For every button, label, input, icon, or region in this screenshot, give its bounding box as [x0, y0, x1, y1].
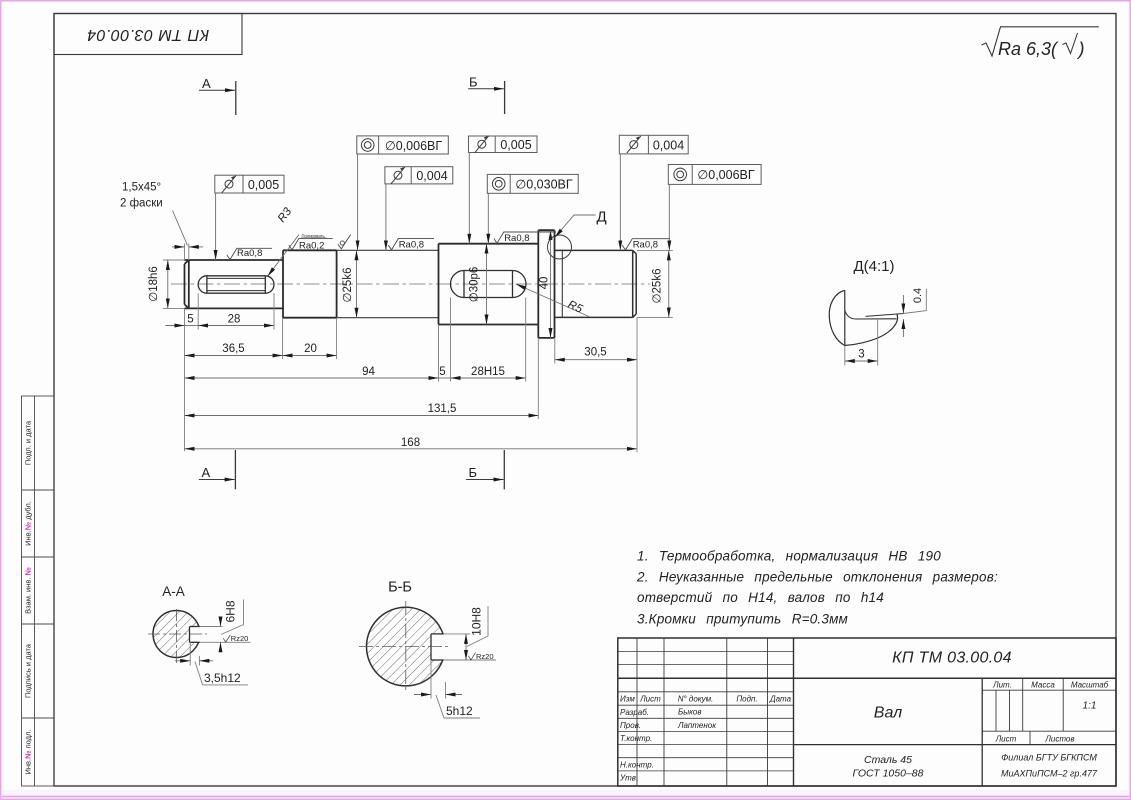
svg-text:Ra0,8: Ra0,8 — [504, 233, 529, 244]
dimension 5 / 28 line — [165, 325, 274, 327]
left margin boxes — [22, 396, 55, 786]
shaft section 2 (Ø25) outline — [283, 250, 337, 317]
svg-text:Н.контр.: Н.контр. — [620, 761, 654, 770]
title block main dividers — [618, 677, 1116, 679]
svg-text:Rz20: Rz20 — [476, 652, 494, 661]
svg-text:1,5x45°: 1,5x45° — [122, 182, 161, 194]
section A-A 6H8 dimension — [200, 600, 251, 653]
svg-text:Лаптенок: Лаптенок — [677, 721, 717, 730]
svg-text:28: 28 — [228, 314, 241, 326]
section A-A centerlines — [148, 609, 207, 664]
title block texts — [619, 650, 1109, 783]
svg-text:R3: R3 — [276, 205, 295, 224]
svg-text:1:1: 1:1 — [1083, 701, 1097, 712]
section B-B 5h12 dimension — [414, 660, 480, 718]
svg-text:0,004: 0,004 — [653, 139, 684, 153]
svg-text:5: 5 — [187, 314, 193, 326]
svg-text:Лист: Лист — [995, 735, 1017, 744]
shaft section Ø30p6 outline — [439, 244, 539, 325]
svg-text:Б: Б — [469, 75, 478, 90]
svg-text:Быков: Быков — [678, 708, 702, 717]
svg-text:Б-Б: Б-Б — [388, 580, 412, 596]
svg-text:2 фаски: 2 фаски — [120, 198, 163, 210]
detail D groove bottom — [845, 311, 897, 320]
svg-text:Подп.: Подп. — [736, 695, 757, 704]
svg-text:Лист: Лист — [639, 695, 661, 704]
svg-text:МиАХПиПСМ–2 гр.477: МиАХПиПСМ–2 гр.477 — [1001, 769, 1098, 779]
detail D surface curve — [845, 315, 898, 346]
left margin labels — [24, 420, 33, 774]
keyway 2 on Ø30 (28H15x10 slot) — [450, 271, 526, 298]
section B-B Rz20 mark — [468, 653, 475, 660]
svg-text:0,005: 0,005 — [248, 178, 279, 192]
svg-text:0.4: 0.4 — [912, 288, 924, 303]
section mark B bottom — [466, 450, 504, 489]
svg-text:5h12: 5h12 — [446, 704, 473, 718]
svg-text:168: 168 — [401, 437, 420, 449]
svg-text:∅0,030ВГ: ∅0,030ВГ — [515, 178, 573, 192]
tolerance frame F runout 0,004 — [619, 135, 688, 250]
svg-text:∅18h6: ∅18h6 — [148, 266, 160, 302]
svg-text:Б: Б — [469, 465, 478, 480]
section mark A top — [199, 76, 236, 115]
svg-text:3: 3 — [858, 349, 864, 361]
svg-text:ГОСТ 1050–88: ГОСТ 1050–88 — [853, 768, 924, 780]
svg-text:КП ТМ 03.00.04: КП ТМ 03.00.04 — [87, 26, 209, 43]
svg-text:Инв.№ дубл.: Инв.№ дубл. — [24, 501, 33, 546]
svg-text:∅0,006ВГ: ∅0,006ВГ — [385, 139, 443, 153]
dimension Ø25k6 tail vertical — [668, 250, 670, 317]
section A-A Rz20 mark — [223, 635, 230, 642]
svg-text:36,5: 36,5 — [222, 343, 244, 355]
general roughness note top-right — [982, 27, 1099, 56]
chamfer dimension 1,5x45 — [172, 211, 203, 247]
relief groove edge — [561, 250, 563, 317]
roughness mark Ra0,8 on section1 — [227, 248, 272, 259]
svg-text:0,005: 0,005 — [500, 138, 531, 152]
svg-text:Ra0,8: Ra0,8 — [237, 248, 262, 259]
svg-text:КП ТМ 03.00.04: КП ТМ 03.00.04 — [892, 650, 1012, 667]
R3 label and leader — [268, 235, 300, 277]
svg-text:А: А — [202, 465, 211, 480]
title block left grid verticals — [637, 638, 768, 786]
detail D leader and label — [555, 209, 607, 238]
svg-text:131,5: 131,5 — [428, 403, 457, 415]
svg-text:0,004: 0,004 — [416, 169, 447, 183]
svg-text:N° докум.: N° докум. — [678, 695, 714, 704]
svg-text:Rz20: Rz20 — [231, 634, 249, 643]
shaft tail (Ø25k6) outline — [555, 250, 637, 317]
svg-text:Ra0,8: Ra0,8 — [399, 239, 424, 250]
tolerance frame G concentricity Ø0,006ВГ — [668, 165, 761, 251]
tolerance frame C runout 0,004 — [385, 167, 453, 251]
svg-text:Подпись и дата: Подпись и дата — [24, 643, 33, 698]
svg-text:∅25k6: ∅25k6 — [652, 269, 664, 304]
R5 label and leader — [516, 284, 589, 317]
section mark A bottom — [199, 450, 236, 489]
svg-text:6H8: 6H8 — [224, 600, 238, 622]
section B-B keyway notch — [431, 634, 446, 660]
title block left grid rows — [618, 652, 794, 771]
svg-text:3.Кромки притупить R=0.3мм: 3.Кромки притупить R=0.3мм — [637, 612, 848, 627]
svg-text:Ra0,8: Ra0,8 — [633, 239, 658, 250]
svg-text:∅25k6: ∅25k6 — [342, 268, 354, 303]
collar Ø40 outline — [538, 230, 554, 338]
section B-B centerlines — [359, 601, 449, 693]
notes text — [636, 549, 998, 627]
dimension 168 line — [185, 448, 638, 450]
detail D step line — [866, 314, 904, 317]
dimension 131,5 line — [185, 415, 539, 417]
section mark B top — [468, 75, 504, 115]
svg-text:Д(4:1): Д(4:1) — [853, 258, 894, 275]
section A-A circle with hatch — [153, 611, 200, 658]
svg-text:94: 94 — [362, 366, 375, 378]
svg-text:Ra0,2: Ra0,2 — [299, 240, 324, 251]
section B-B circle with hatch — [367, 607, 446, 686]
dimension Ø30p6 vertical — [486, 244, 488, 325]
detail D collar face curve — [829, 290, 845, 345]
svg-text:Филиал БГТУ БГКПСМ: Филиал БГТУ БГКПСМ — [1001, 753, 1097, 763]
svg-text:1. Термообработка, нормализа: 1. Термообработка, нормализация НВ 190 — [637, 549, 941, 564]
svg-text:Листов: Листов — [1044, 735, 1074, 744]
svg-text:Ra 6,3(: Ra 6,3( — [998, 39, 1059, 59]
svg-text:Инв.№ подл.: Инв.№ подл. — [24, 730, 33, 775]
svg-text:Разраб.: Разраб. — [620, 708, 649, 717]
title block outer frame — [618, 638, 1116, 786]
svg-text:20: 20 — [304, 343, 317, 355]
shaft centerline — [171, 283, 650, 285]
title block lit/massa/masshtab cells — [982, 678, 1116, 744]
svg-text:отверстий по Н14, валов по: отверстий по Н14, валов по h14 — [637, 590, 884, 605]
keyway 1 on Ø18 (28x6 slot) — [198, 276, 274, 293]
dimension 30,5 line — [555, 359, 637, 361]
svg-text:∅30р6: ∅30р6 — [469, 267, 481, 303]
top-left stamp box — [54, 14, 242, 55]
extension lines — [163, 244, 673, 453]
svg-text:Д: Д — [597, 209, 607, 226]
svg-text:28H15: 28H15 — [471, 366, 505, 378]
svg-text:30,5: 30,5 — [584, 347, 606, 359]
svg-text:Масса: Масса — [1031, 681, 1055, 690]
roughness mark Ra0,8 on middle — [388, 239, 434, 250]
svg-text:40: 40 — [539, 277, 551, 290]
section B-B 10H8 dimension — [444, 606, 497, 660]
svg-text:Утв.: Утв. — [619, 774, 638, 783]
dimension 40 vertical — [550, 230, 552, 338]
svg-text:2. Неуказанные предельные о: 2. Неуказанные предельные отклонения раз… — [636, 570, 998, 585]
roughness check with circle at step — [338, 235, 351, 249]
svg-text:10H8: 10H8 — [470, 607, 484, 636]
svg-text:Пров.: Пров. — [620, 721, 641, 730]
svg-text:): ) — [1077, 39, 1085, 59]
svg-text:А: А — [202, 76, 211, 91]
shaft section 1 (Ø18h6) outline — [185, 250, 284, 317]
svg-text:А-А: А-А — [162, 584, 185, 599]
roughness mark Ra0,8 on Ø30 — [494, 232, 556, 243]
tolerance frame E concentricity Ø0,030ВГ — [487, 174, 578, 243]
svg-text:Сталь 45: Сталь 45 — [864, 754, 912, 766]
roughness mark Ra0,8 on tail — [622, 239, 670, 250]
roughness mark Ra0,2 with Polirovat — [289, 239, 333, 250]
section A-A 3,5h12 dimension — [175, 642, 248, 685]
svg-text:Масштаб: Масштаб — [1071, 681, 1109, 690]
section A-A keyway notch — [190, 627, 201, 642]
svg-text:Вал: Вал — [874, 705, 902, 722]
dimension 36,5 / 20 line — [185, 355, 337, 357]
dimension Ø25k6 middle vertical — [356, 250, 358, 317]
svg-text:∅0,006ВГ: ∅0,006ВГ — [697, 168, 755, 182]
svg-text:Дата: Дата — [769, 695, 792, 704]
svg-text:Т.контр.: Т.контр. — [620, 734, 652, 743]
shaft middle section (Ø25k6) outline — [337, 250, 439, 317]
svg-text:3,5h12: 3,5h12 — [204, 671, 241, 685]
tolerance frame B concentricity Ø0,006ВГ — [357, 136, 449, 250]
svg-text:5: 5 — [439, 366, 445, 378]
tolerance frame A runout 0,005 — [215, 175, 284, 260]
dimension 94 / 5 / 28H15 line — [185, 377, 526, 379]
dimension texts — [148, 266, 664, 449]
svg-text:Подп. и дата: Подп. и дата — [24, 420, 33, 465]
detail D circle — [548, 235, 572, 259]
svg-text:Взам. инв. №: Взам. инв. № — [24, 567, 33, 614]
detail D 3 dimension — [845, 319, 878, 366]
detail D 0.4 dimension — [903, 289, 926, 338]
svg-text:Изм: Изм — [620, 695, 635, 704]
tolerance frame D runout 0,005 — [469, 136, 538, 244]
svg-text:Лит.: Лит. — [992, 681, 1012, 690]
dimension Ø18h6 vertical — [167, 260, 169, 308]
